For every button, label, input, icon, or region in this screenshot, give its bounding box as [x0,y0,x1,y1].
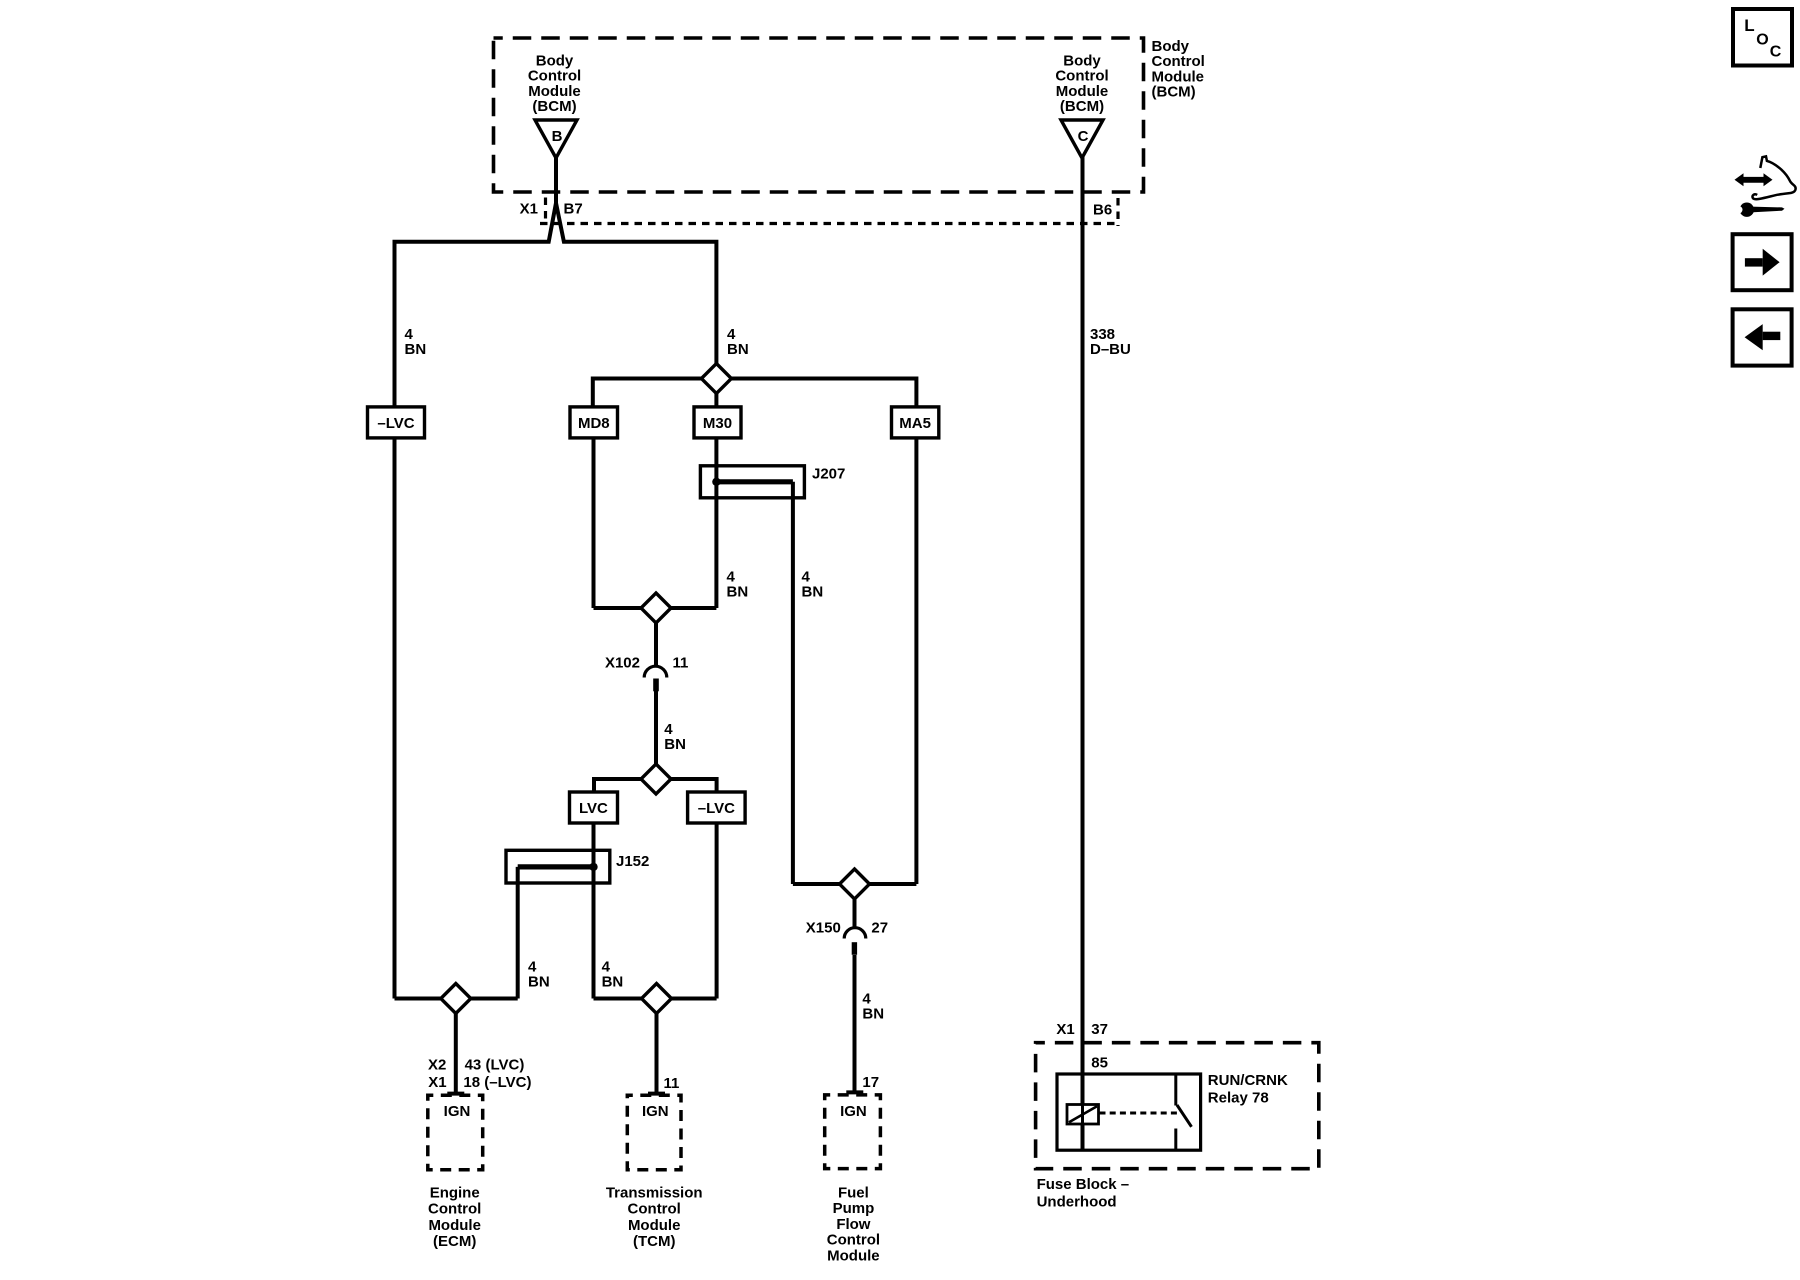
svg-text:BN: BN [862,1006,884,1023]
svg-text:X1: X1 [520,201,538,218]
svg-text:Underhood: Underhood [1037,1193,1117,1210]
svg-text:B6: B6 [1093,202,1112,219]
svg-text:–LVC: –LVC [698,800,735,817]
svg-text:37: 37 [1091,1021,1108,1038]
svg-text:L: L [1744,16,1754,35]
svg-text:BN: BN [405,341,427,358]
svg-text:X2: X2 [428,1057,446,1074]
svg-text:MD8: MD8 [578,415,610,432]
svg-text:Relay 78: Relay 78 [1208,1090,1269,1107]
svg-text:Transmission: Transmission [606,1185,703,1202]
svg-text:MA5: MA5 [899,415,931,432]
svg-text:X150: X150 [806,920,841,937]
svg-text:Engine: Engine [430,1185,480,1202]
svg-text:Module: Module [827,1247,880,1264]
svg-text:D–BU: D–BU [1090,341,1131,358]
svg-text:Fuse Block –: Fuse Block – [1037,1176,1130,1193]
svg-text:BN: BN [602,974,624,991]
svg-text:85: 85 [1091,1055,1108,1072]
svg-text:IGN: IGN [840,1103,867,1120]
svg-text:Control: Control [628,1201,681,1218]
svg-text:B: B [552,128,563,145]
svg-text:X102: X102 [605,655,640,672]
svg-text:IGN: IGN [444,1103,471,1120]
svg-text:J207: J207 [812,466,845,483]
svg-text:(ECM): (ECM) [433,1233,476,1250]
svg-text:–LVC: –LVC [377,415,414,432]
svg-text:11: 11 [673,655,689,672]
svg-text:Pump: Pump [833,1200,875,1217]
svg-text:BN: BN [528,974,550,991]
svg-text:M30: M30 [703,415,732,432]
svg-text:RUN/CRNK: RUN/CRNK [1208,1072,1288,1089]
svg-text:O: O [1756,32,1768,49]
svg-text:17: 17 [862,1074,879,1091]
svg-text:BN: BN [664,736,686,753]
svg-text:(BCM): (BCM) [1060,98,1104,115]
svg-text:BN: BN [727,584,749,601]
svg-text:C: C [1770,44,1782,61]
svg-text:Module: Module [428,1217,481,1234]
svg-text:Fuel: Fuel [838,1185,869,1202]
svg-text:X1: X1 [428,1074,446,1091]
svg-text:(TCM): (TCM) [633,1233,675,1250]
svg-text:Module: Module [628,1217,681,1234]
svg-text:Control: Control [827,1232,880,1249]
svg-text:(BCM): (BCM) [1152,84,1196,101]
svg-text:Flow: Flow [836,1216,870,1233]
svg-text:11: 11 [664,1075,680,1092]
svg-text:Control: Control [428,1201,481,1218]
svg-text:27: 27 [871,920,888,937]
svg-text:C: C [1078,128,1089,145]
svg-text:LVC: LVC [579,800,608,817]
svg-text:18 (–LVC): 18 (–LVC) [463,1074,531,1091]
svg-text:BN: BN [802,584,824,601]
svg-text:43 (LVC): 43 (LVC) [465,1057,525,1074]
svg-text:X1: X1 [1056,1021,1074,1038]
svg-text:J152: J152 [616,853,649,870]
svg-text:IGN: IGN [642,1103,669,1120]
svg-text:B7: B7 [564,201,583,218]
svg-text:BN: BN [727,341,749,358]
svg-text:(BCM): (BCM) [532,98,576,115]
